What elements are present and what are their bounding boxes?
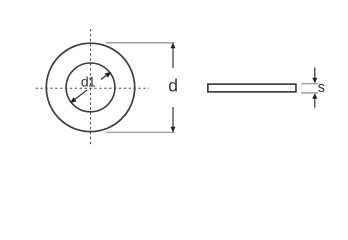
svg-text:d: d — [168, 75, 178, 95]
d1 dimension line upper segment — [101, 74, 109, 80]
d dimension arrowhead top — [171, 43, 176, 49]
d dimension arrowhead bottom — [171, 127, 176, 133]
washer inner circle (hole) — [66, 63, 115, 112]
d dimension line upper segment — [172, 43, 174, 68]
s down-arrow leader — [314, 68, 316, 79]
s bottom extension line — [301, 92, 318, 94]
washer outer circle — [46, 43, 134, 131]
horizontal centerline — [36, 87, 150, 89]
top extension line for d — [106, 42, 175, 44]
vertical centerline — [90, 29, 92, 145]
svg-text:s: s — [318, 80, 325, 96]
s arrowhead down — [312, 78, 317, 84]
d1 dimension line lower segment — [72, 90, 87, 102]
d1 arrowhead lower-left — [70, 97, 76, 103]
svg-text:d1: d1 — [81, 74, 96, 90]
s arrowhead up — [312, 93, 317, 99]
s up-arrow leader — [314, 98, 316, 108]
d1 arrowhead upper-right — [105, 72, 111, 78]
side view washer rectangle — [208, 84, 296, 92]
bottom extension line for d — [106, 131, 175, 133]
s top extension line — [301, 83, 318, 85]
d dimension line lower segment — [172, 107, 174, 132]
